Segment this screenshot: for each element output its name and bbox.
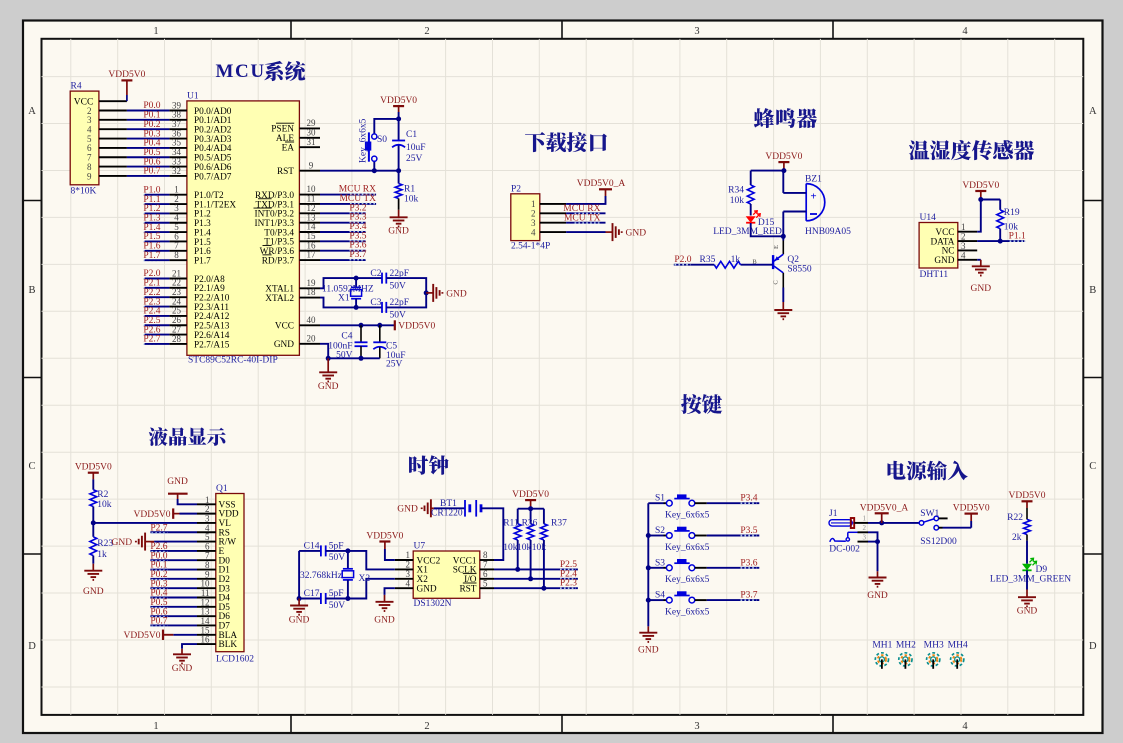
svg-text:RST: RST — [277, 167, 294, 177]
svg-text:A: A — [28, 106, 36, 117]
svg-text:C3: C3 — [370, 298, 381, 308]
svg-text:22pF: 22pF — [390, 298, 410, 308]
svg-text:2: 2 — [424, 26, 429, 37]
svg-text:C4: C4 — [341, 332, 352, 342]
svg-text:MCU TX: MCU TX — [564, 213, 601, 223]
svg-text:P1.7: P1.7 — [194, 256, 211, 266]
svg-text:50V: 50V — [390, 311, 407, 321]
svg-text:3: 3 — [863, 533, 867, 541]
svg-text:5pF: 5pF — [329, 589, 344, 599]
svg-text:1k: 1k — [731, 255, 741, 265]
svg-text:C: C — [28, 461, 35, 472]
svg-text:RD/P3.7: RD/P3.7 — [262, 256, 295, 266]
svg-text:LCD1602: LCD1602 — [216, 655, 254, 665]
svg-text:10k: 10k — [503, 543, 518, 553]
svg-text:MH1: MH1 — [872, 641, 892, 651]
svg-text:10k: 10k — [517, 543, 532, 553]
svg-text:X2: X2 — [359, 574, 371, 584]
svg-text:C2: C2 — [370, 269, 381, 279]
svg-text:2: 2 — [424, 721, 429, 732]
svg-text:16: 16 — [201, 635, 211, 645]
svg-text:VDD5V0: VDD5V0 — [1009, 491, 1046, 501]
svg-text:Key_6x6x5: Key_6x6x5 — [665, 511, 710, 521]
svg-text:C17: C17 — [304, 589, 320, 599]
svg-text:VDD5V0: VDD5V0 — [398, 322, 435, 332]
svg-text:VDD5V0: VDD5V0 — [134, 510, 171, 520]
svg-text:GND: GND — [274, 340, 294, 350]
svg-text:C: C — [773, 280, 780, 284]
svg-text:DS1302N: DS1302N — [414, 599, 452, 609]
svg-text:P3.4: P3.4 — [740, 494, 757, 504]
svg-text:GND: GND — [318, 382, 339, 392]
svg-text:Key_6x6x5: Key_6x6x5 — [665, 543, 710, 553]
svg-text:GND: GND — [112, 538, 133, 548]
svg-text:10uF: 10uF — [406, 143, 426, 153]
svg-text:25V: 25V — [406, 154, 423, 164]
svg-text:VDD5V0: VDD5V0 — [124, 631, 161, 641]
svg-text:J1: J1 — [829, 509, 838, 519]
svg-text:BZ1: BZ1 — [805, 174, 822, 184]
svg-text:4: 4 — [962, 721, 968, 732]
svg-text:D: D — [28, 641, 36, 652]
svg-text:50V: 50V — [329, 601, 346, 611]
svg-text:SS12D00: SS12D00 — [920, 537, 957, 547]
svg-text:DHT11: DHT11 — [920, 270, 949, 280]
svg-text:P0.7: P0.7 — [150, 617, 167, 627]
svg-text:1: 1 — [153, 26, 158, 37]
svg-text:VDD5V0: VDD5V0 — [380, 96, 417, 106]
svg-text:GND: GND — [172, 664, 193, 674]
svg-text:9: 9 — [309, 160, 314, 170]
svg-text:5: 5 — [483, 578, 488, 588]
svg-text:S2: S2 — [655, 526, 665, 536]
svg-text:VDD5V0: VDD5V0 — [108, 70, 145, 80]
svg-text:LED_3MM_RED: LED_3MM_RED — [713, 227, 782, 237]
svg-text:GND: GND — [626, 229, 647, 239]
svg-text:20: 20 — [307, 333, 317, 343]
svg-text:BT1: BT1 — [440, 499, 457, 509]
svg-text:18: 18 — [307, 287, 317, 297]
svg-text:C5: C5 — [386, 342, 397, 352]
svg-text:P2.7: P2.7 — [150, 523, 167, 533]
svg-text:8: 8 — [174, 250, 179, 260]
svg-text:2k: 2k — [1012, 533, 1022, 543]
svg-text:17: 17 — [307, 250, 317, 260]
svg-text:VCC: VCC — [275, 322, 294, 332]
svg-text:P2.0: P2.0 — [674, 255, 691, 265]
svg-text:D9: D9 — [1036, 565, 1048, 575]
svg-text:C14: C14 — [304, 542, 320, 552]
svg-text:VDD5V0: VDD5V0 — [512, 490, 549, 500]
svg-text:X1: X1 — [338, 294, 350, 304]
svg-text:P1.1: P1.1 — [1009, 232, 1026, 242]
svg-text:22pF: 22pF — [390, 269, 410, 279]
svg-text:4: 4 — [531, 227, 536, 237]
svg-text:VDD5V0: VDD5V0 — [366, 531, 403, 541]
svg-text:VDD5V0: VDD5V0 — [953, 504, 990, 514]
svg-text:S4: S4 — [655, 591, 665, 601]
svg-text:EA: EA — [282, 144, 295, 154]
svg-text:VDD5V0: VDD5V0 — [962, 181, 999, 191]
svg-text:Key_6x6x5: Key_6x6x5 — [359, 118, 369, 163]
svg-text:8*10K: 8*10K — [71, 187, 97, 197]
svg-text:P3.7: P3.7 — [740, 591, 757, 601]
svg-text:HNB09A05: HNB09A05 — [805, 227, 851, 237]
svg-text:28: 28 — [172, 334, 182, 344]
svg-text:MH3: MH3 — [924, 641, 944, 651]
svg-text:1: 1 — [153, 721, 158, 732]
svg-text:2: 2 — [863, 524, 867, 532]
svg-text:2.54-1*4P: 2.54-1*4P — [511, 242, 550, 252]
svg-text:R36: R36 — [522, 518, 538, 528]
svg-text:GND: GND — [1017, 606, 1038, 616]
svg-text:MCU: MCU — [216, 61, 266, 82]
svg-text:C1: C1 — [406, 130, 417, 140]
svg-text:R19: R19 — [1004, 208, 1020, 218]
svg-text:R11: R11 — [503, 518, 519, 528]
svg-text:9: 9 — [87, 171, 92, 181]
svg-text:VDD5V0_A: VDD5V0_A — [860, 503, 909, 513]
svg-text:+: + — [810, 191, 816, 203]
svg-text:GND: GND — [374, 616, 395, 626]
svg-text:D: D — [1089, 641, 1097, 652]
svg-text:U7: U7 — [414, 541, 426, 551]
svg-text:Key_6x6x5: Key_6x6x5 — [665, 575, 710, 585]
svg-text:50V: 50V — [390, 282, 407, 292]
svg-text:GND: GND — [388, 227, 409, 237]
svg-text:B: B — [752, 258, 757, 265]
svg-text:3: 3 — [694, 26, 699, 37]
svg-text:GND: GND — [638, 646, 659, 656]
svg-text:DC-002: DC-002 — [829, 545, 860, 555]
svg-text:Q1: Q1 — [216, 484, 228, 494]
svg-text:MH2: MH2 — [896, 641, 916, 651]
svg-text:GND: GND — [397, 505, 418, 515]
svg-text:10k: 10k — [730, 196, 745, 206]
svg-text:S8550: S8550 — [787, 265, 812, 275]
svg-text:R37: R37 — [551, 518, 567, 528]
svg-text:1: 1 — [863, 514, 867, 522]
svg-text:U1: U1 — [187, 91, 199, 101]
svg-text:3: 3 — [694, 721, 699, 732]
svg-text:STC89C52RC-40I-DIP: STC89C52RC-40I-DIP — [188, 356, 278, 366]
svg-text:R22: R22 — [1007, 513, 1023, 523]
svg-text:GND: GND — [934, 256, 954, 266]
svg-text:GND: GND — [83, 587, 104, 597]
svg-text:SW1: SW1 — [920, 509, 939, 519]
svg-text:P3.7: P3.7 — [349, 250, 366, 260]
svg-text:P2: P2 — [511, 184, 521, 194]
svg-text:10k: 10k — [404, 195, 419, 205]
svg-text:E: E — [773, 245, 780, 249]
svg-text:XTAL2: XTAL2 — [265, 294, 294, 304]
svg-text:B: B — [28, 285, 35, 296]
svg-text:R2: R2 — [97, 490, 108, 500]
svg-text:MH4: MH4 — [948, 641, 968, 651]
svg-text:S0: S0 — [377, 135, 387, 145]
svg-text:R34: R34 — [728, 185, 744, 195]
svg-text:C: C — [1089, 461, 1096, 472]
svg-text:4: 4 — [406, 578, 411, 588]
svg-text:32.768kHz: 32.768kHz — [300, 571, 342, 581]
svg-text:10k: 10k — [532, 543, 547, 553]
svg-text:RST: RST — [459, 585, 476, 595]
svg-text:5pF: 5pF — [329, 542, 344, 552]
svg-text:LED_3MM_GREEN: LED_3MM_GREEN — [990, 575, 1071, 585]
svg-text:GND: GND — [289, 616, 310, 626]
svg-text:Q2: Q2 — [787, 255, 799, 265]
svg-text:R35: R35 — [700, 255, 716, 265]
svg-text:31: 31 — [307, 137, 316, 147]
svg-text:P2.7/A15: P2.7/A15 — [194, 340, 230, 350]
svg-text:4: 4 — [962, 26, 968, 37]
svg-text:GND: GND — [867, 591, 888, 601]
svg-text:P3.6: P3.6 — [740, 558, 757, 568]
svg-text:4: 4 — [961, 250, 966, 260]
svg-text:B: B — [1089, 285, 1096, 296]
svg-text:P3.5: P3.5 — [740, 526, 757, 536]
svg-text:25V: 25V — [386, 360, 403, 370]
svg-text:VDD5V0: VDD5V0 — [765, 152, 802, 162]
svg-text:R1: R1 — [404, 185, 415, 195]
svg-text:GND: GND — [417, 585, 437, 595]
svg-text:32: 32 — [172, 166, 181, 176]
svg-text:VDD5V0: VDD5V0 — [75, 463, 112, 473]
svg-text:P0.7/AD7: P0.7/AD7 — [194, 172, 232, 182]
svg-text:VDD5V0_A: VDD5V0_A — [577, 179, 626, 189]
svg-text:A: A — [1089, 106, 1097, 117]
svg-text:GND: GND — [167, 477, 188, 487]
svg-text:10k: 10k — [97, 500, 112, 510]
svg-text:S3: S3 — [655, 558, 665, 568]
svg-text:S1: S1 — [655, 494, 665, 504]
svg-text:50V: 50V — [329, 553, 346, 563]
svg-text:U14: U14 — [920, 213, 937, 223]
svg-text:CR1220: CR1220 — [431, 509, 463, 519]
svg-text:BLK: BLK — [219, 640, 238, 650]
svg-text:50V: 50V — [336, 351, 353, 361]
svg-text:R4: R4 — [71, 82, 82, 92]
svg-text:Key_6x6x5: Key_6x6x5 — [665, 607, 710, 617]
svg-text:P2.3: P2.3 — [560, 579, 577, 589]
svg-text:GND: GND — [446, 289, 467, 299]
svg-text:GND: GND — [971, 284, 992, 294]
svg-text:40: 40 — [307, 315, 317, 325]
svg-text:1k: 1k — [97, 550, 107, 560]
